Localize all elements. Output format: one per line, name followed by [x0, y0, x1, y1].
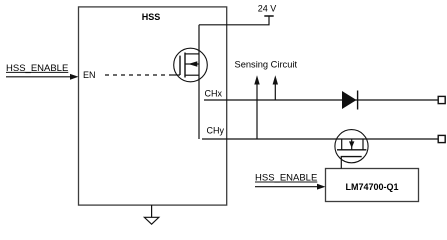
svg-text:HSS: HSS	[142, 12, 161, 22]
svg-text:EN: EN	[83, 70, 96, 80]
svg-text:CHx: CHx	[205, 89, 223, 99]
svg-text:CHy: CHy	[207, 126, 225, 136]
svg-text:Sensing Circuit: Sensing Circuit	[235, 59, 298, 69]
svg-text:LM74700-Q1: LM74700-Q1	[345, 182, 398, 192]
svg-text:24 V: 24 V	[258, 3, 277, 13]
